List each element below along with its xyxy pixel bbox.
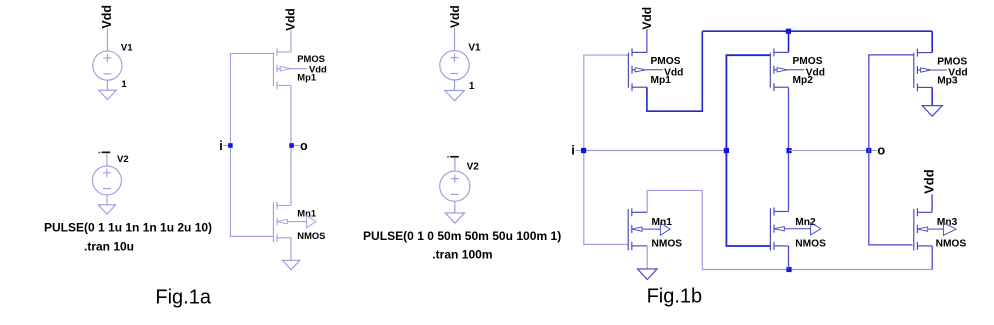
- svg-text:1: 1: [121, 79, 127, 90]
- wire Mp1 source to Vdd: [290, 30, 292, 52]
- nmos Mn1 (Fig.1b): [628, 208, 647, 250]
- node bottom rail / Mn2 source: [786, 267, 791, 272]
- svg-text:Vdd: Vdd: [640, 7, 654, 30]
- label Mn3: [937, 217, 958, 228]
- wire Mn3 source drop: [931, 246, 933, 270]
- net label Vdd (Mn3 drain): [921, 169, 936, 194]
- label PMOS (Mp3): [937, 56, 967, 67]
- net label Vdd (Mp1 source): [283, 8, 297, 31]
- wire Mn1 source: [290, 238, 292, 260]
- label NMOS (Mn1b): [652, 238, 683, 249]
- net label Vdd (Mp1b source): [640, 7, 654, 30]
- svg-text:i: i: [571, 143, 575, 158]
- ground (V1): [99, 90, 116, 100]
- wire Mn3 drain to Vdd: [931, 194, 933, 212]
- wire V1b bottom: [454, 80, 456, 91]
- svg-text:NMOS: NMOS: [652, 238, 683, 249]
- node top rail / Mp2 source: [786, 29, 791, 34]
- node o (Fig.1b): [866, 148, 871, 153]
- svg-text:Mp2: Mp2: [793, 75, 814, 86]
- svg-text:.tran 100m: .tran 100m: [432, 248, 492, 262]
- voltage source V1: [93, 51, 122, 80]
- label Mn2: [795, 217, 816, 228]
- wire net i segment A: [584, 150, 727, 152]
- svg-text:Mn2: Mn2: [795, 217, 816, 228]
- svg-text:o: o: [300, 139, 308, 153]
- spice value PULSE (V2): [44, 220, 212, 234]
- wire net o segment B: [789, 150, 869, 152]
- svg-text:V2: V2: [467, 161, 480, 172]
- bulk wire + flag (Mn1b): [642, 223, 670, 235]
- svg-text:V1: V1: [121, 42, 133, 53]
- svg-text:NMOS: NMOS: [297, 230, 325, 241]
- voltage source V2 (Fig.1b): [440, 171, 470, 201]
- label o (Fig.1b): [871, 143, 885, 158]
- label NMOS (Mn2): [795, 238, 826, 249]
- spice directive .tran 10u: [84, 239, 134, 253]
- label Mn1: [297, 208, 316, 219]
- wire V2 top: [106, 153, 108, 166]
- nmos Mn3: [914, 208, 932, 250]
- wire V1b top: [454, 28, 456, 51]
- floating marker (V2b top): [447, 156, 459, 158]
- label PMOS (Mp1): [297, 53, 325, 64]
- label Mp2: [793, 75, 814, 86]
- svg-text:Vdd: Vdd: [283, 8, 297, 31]
- svg-text:1: 1: [469, 81, 475, 92]
- node gate line 2: [724, 148, 729, 153]
- label NMOS (Mn3): [936, 238, 967, 249]
- wire V2b bottom: [454, 201, 456, 213]
- svg-text:NMOS: NMOS: [795, 238, 826, 249]
- voltage source V2: [92, 166, 121, 195]
- caption Fig.1b: [647, 285, 703, 307]
- label V1: [121, 42, 133, 53]
- bulk wire + flag (Mn1): [287, 215, 316, 227]
- wire top rail: [702, 30, 932, 32]
- svg-text:Mp1: Mp1: [297, 72, 316, 83]
- wire stage2 output column: [788, 87, 790, 211]
- svg-text:PULSE(0 1 1u 1n 1n 1u 2u 10): PULSE(0 1 1u 1n 1n 1u 2u 10): [44, 220, 212, 234]
- wire Mp2 source drop: [788, 31, 790, 52]
- label PMOS (Mp2): [793, 56, 823, 67]
- svg-text:PMOS: PMOS: [651, 56, 681, 67]
- wire Mn1b source: [646, 246, 648, 269]
- svg-text:V1: V1: [468, 42, 481, 53]
- svg-text:V2: V2: [117, 154, 129, 165]
- label PMOS (Mp1b): [651, 56, 681, 67]
- svg-text:PMOS: PMOS: [937, 56, 967, 67]
- wire Mp1b drain route: [647, 31, 702, 111]
- net label Vdd (V1b top): [448, 5, 462, 28]
- bulk wire + flag (Mn3): [928, 223, 957, 235]
- wire V2 bottom: [106, 195, 108, 205]
- wire Mn1b drain route: [647, 190, 702, 269]
- label i (Fig.1b): [571, 143, 581, 158]
- spice directive .tran 100m: [432, 248, 492, 262]
- svg-text:Mn1: Mn1: [652, 217, 673, 228]
- svg-text:.tran 10u: .tran 10u: [84, 239, 134, 253]
- net label Vdd (Mp1b bulk): [645, 67, 683, 78]
- wire V1 top: [106, 28, 108, 51]
- label V2 (Fig.1b): [467, 161, 480, 172]
- pmos Mp1 (Fig.1a): [273, 48, 291, 89]
- svg-text:Vdd: Vdd: [100, 5, 114, 29]
- svg-text:i: i: [219, 139, 222, 153]
- wire Mp3 drain to ground: [931, 87, 933, 105]
- svg-text:Vdd: Vdd: [448, 5, 462, 28]
- wire gate line 2: [726, 55, 770, 246]
- node i (Fig.1b): [581, 148, 586, 153]
- pmos Mp3: [914, 49, 932, 92]
- nmos Mn1 (Fig.1a): [273, 202, 291, 243]
- svg-text:Vdd: Vdd: [921, 169, 936, 194]
- svg-text:PULSE(0 1 0 50m 50m 50u 100m 1: PULSE(0 1 0 50m 50m 50u 100m 1): [363, 229, 561, 243]
- net label Vdd (Mp1 bulk): [290, 64, 327, 75]
- value 1 (V1b): [469, 81, 475, 92]
- wire Mn2 source drop: [788, 246, 790, 270]
- svg-text:PMOS: PMOS: [297, 53, 325, 64]
- net label Vdd (V1 top): [100, 5, 114, 29]
- label o: [294, 139, 308, 153]
- ground (V2): [98, 205, 115, 215]
- label Mn1 (Fig.1b): [652, 217, 673, 228]
- ground (Mn1b): [638, 269, 658, 280]
- node stage2 out: [786, 148, 791, 153]
- node o: [289, 143, 294, 148]
- ground (Mn1): [283, 260, 300, 270]
- svg-text:Mp1: Mp1: [651, 75, 672, 86]
- ground (V1b): [445, 91, 464, 101]
- svg-text:Mn3: Mn3: [937, 217, 958, 228]
- label V1 (Fig.1b): [468, 42, 481, 53]
- spice value PULSE (V2b): [363, 229, 561, 243]
- svg-text:Mp3: Mp3: [937, 75, 958, 86]
- svg-text:Fig.1a: Fig.1a: [155, 286, 211, 308]
- wire V1 bottom: [106, 80, 108, 90]
- wire Mp1b source to Vdd: [646, 29, 648, 52]
- pmos Mp2: [770, 48, 788, 91]
- nmos Mn2: [770, 208, 788, 251]
- wire input net i gate line 1: [584, 55, 630, 244]
- node i: [228, 143, 233, 148]
- svg-text:o: o: [877, 143, 885, 158]
- label Mp3: [937, 75, 958, 86]
- pmos Mp1 (Fig.1b): [628, 48, 647, 91]
- label Mp1 (Fig.1b): [651, 75, 672, 86]
- ground (Mp3): [922, 106, 942, 117]
- floating marker (V2 top): [99, 152, 111, 154]
- wire Mp3 source drop: [931, 31, 933, 52]
- svg-text:Fig.1b: Fig.1b: [647, 285, 703, 307]
- caption Fig.1a: [155, 286, 211, 308]
- label NMOS (Mn1): [297, 230, 325, 241]
- wire output net o: [290, 85, 292, 205]
- voltage source V1 (Fig.1b): [440, 51, 469, 80]
- svg-text:PMOS: PMOS: [793, 56, 823, 67]
- wire gate line 3: [869, 55, 914, 245]
- value 1 (V1): [121, 79, 127, 90]
- label V2: [117, 154, 129, 165]
- ground (V2b): [445, 213, 464, 223]
- wire bottom rail: [702, 269, 932, 271]
- net label Vdd (Mp3 bulk): [931, 68, 968, 79]
- bulk wire + flag (Mn2): [784, 223, 821, 235]
- label Mp1: [297, 72, 316, 83]
- svg-text:NMOS: NMOS: [936, 238, 967, 249]
- wire input net i (gate line): [230, 54, 273, 237]
- label i: [219, 139, 228, 153]
- net label Vdd (Mp2 bulk): [787, 67, 825, 78]
- wire V2b top: [454, 158, 456, 171]
